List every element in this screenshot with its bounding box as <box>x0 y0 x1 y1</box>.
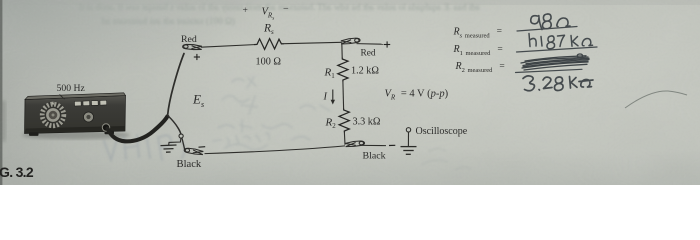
wire node down to R1 <box>341 42 343 57</box>
svg-text:Black: Black <box>363 151 386 162</box>
faint bleedthrough handwriting VHIP <box>104 135 185 160</box>
paper background <box>0 0 700 185</box>
svg-text:500 Hz: 500 Hz <box>57 83 86 94</box>
handwritten 1187 kohm <box>529 34 593 49</box>
handwritten 3.28 kohm <box>523 76 593 91</box>
alligator clip Red (oscilloscope +) <box>341 38 361 45</box>
svg-text:3.3 kΩ: 3.3 kΩ <box>353 116 381 127</box>
oscilloscope ground stem <box>407 132 409 146</box>
wire resistor Rs to node <box>284 42 342 43</box>
wire R1 to R2 <box>342 82 345 109</box>
bleed-through mirrored text top <box>79 2 480 26</box>
plus sign under left red clip <box>194 54 200 60</box>
alligator clip Black (generator lead) <box>184 148 204 156</box>
label + VRs - above <box>243 4 290 22</box>
current arrow <box>331 90 335 105</box>
underline row 1 <box>517 27 577 32</box>
ground symbol oscilloscope <box>401 147 417 155</box>
scribbled out value row 3 <box>521 54 589 70</box>
generator feet <box>29 132 39 136</box>
resistor R2 zigzag <box>339 109 349 133</box>
underline row 2 <box>517 47 598 52</box>
resistor R1 zigzag <box>338 58 348 82</box>
svg-text:Black: Black <box>177 159 202 170</box>
svg-text:Oscilloscope: Oscilloscope <box>416 126 468 137</box>
generator output jack <box>102 124 109 131</box>
alligator clip Red (generator lead) <box>183 44 202 50</box>
wire R2 to bottom node <box>343 133 346 145</box>
underline row 3 <box>516 69 583 72</box>
stray pencil arc bottom right <box>625 91 687 108</box>
minus sign at generator black clip <box>199 146 206 149</box>
svg-text:adi baa .E aqafqada lo aulav a: adi baa .E aqafqada lo aulav adt ba xdw … <box>79 2 480 12</box>
faint bleedthrough scribbles center <box>213 77 330 150</box>
generator cable <box>108 117 168 142</box>
svg-text:1.2 kΩ: 1.2 kΩ <box>351 65 379 76</box>
wire red clip to resistor Rs <box>201 45 254 48</box>
bottom wire rail <box>205 146 346 154</box>
svg-text:(Ω 001) sataiast adt aui baiuz: (Ω 001) sataiast adt aui baiuzsam ad <box>101 16 235 26</box>
wire from node circle to black clip <box>182 138 185 152</box>
generator buttons <box>74 100 106 106</box>
node circle junction <box>179 134 183 138</box>
ground symbol at generator <box>161 145 177 152</box>
handwritten 98 ohm <box>531 14 570 30</box>
wire clip tail to plus <box>357 43 384 46</box>
generator body <box>25 93 126 134</box>
wire from node to generator ground <box>169 138 181 145</box>
svg-text:100 Ω: 100 Ω <box>256 56 282 67</box>
svg-text:Red: Red <box>361 49 376 59</box>
svg-text:G. 3.2: G. 3.2 <box>0 164 34 180</box>
plus sign oscilloscope <box>384 41 390 47</box>
oscilloscope terminal circle <box>406 128 410 132</box>
black lead wire to node circle <box>168 116 181 135</box>
faint marks lower middle <box>422 149 471 170</box>
svg-text:Red: Red <box>181 34 197 45</box>
minus sign oscilloscope <box>389 144 395 146</box>
generator main knob <box>40 101 66 128</box>
generator shadow <box>22 131 130 140</box>
alligator clip Black (oscilloscope) <box>345 141 364 148</box>
svg-text:+: + <box>243 6 248 16</box>
wire clip to oscilloscope minus <box>362 144 387 146</box>
svg-text:−: − <box>283 4 289 15</box>
red lead wire up to Red clip <box>168 54 184 116</box>
pointer line from 500 Hz <box>60 95 65 100</box>
generator small knob <box>84 112 94 122</box>
resistor Rs zigzag <box>254 39 284 50</box>
svg-text:I: I <box>323 92 328 103</box>
